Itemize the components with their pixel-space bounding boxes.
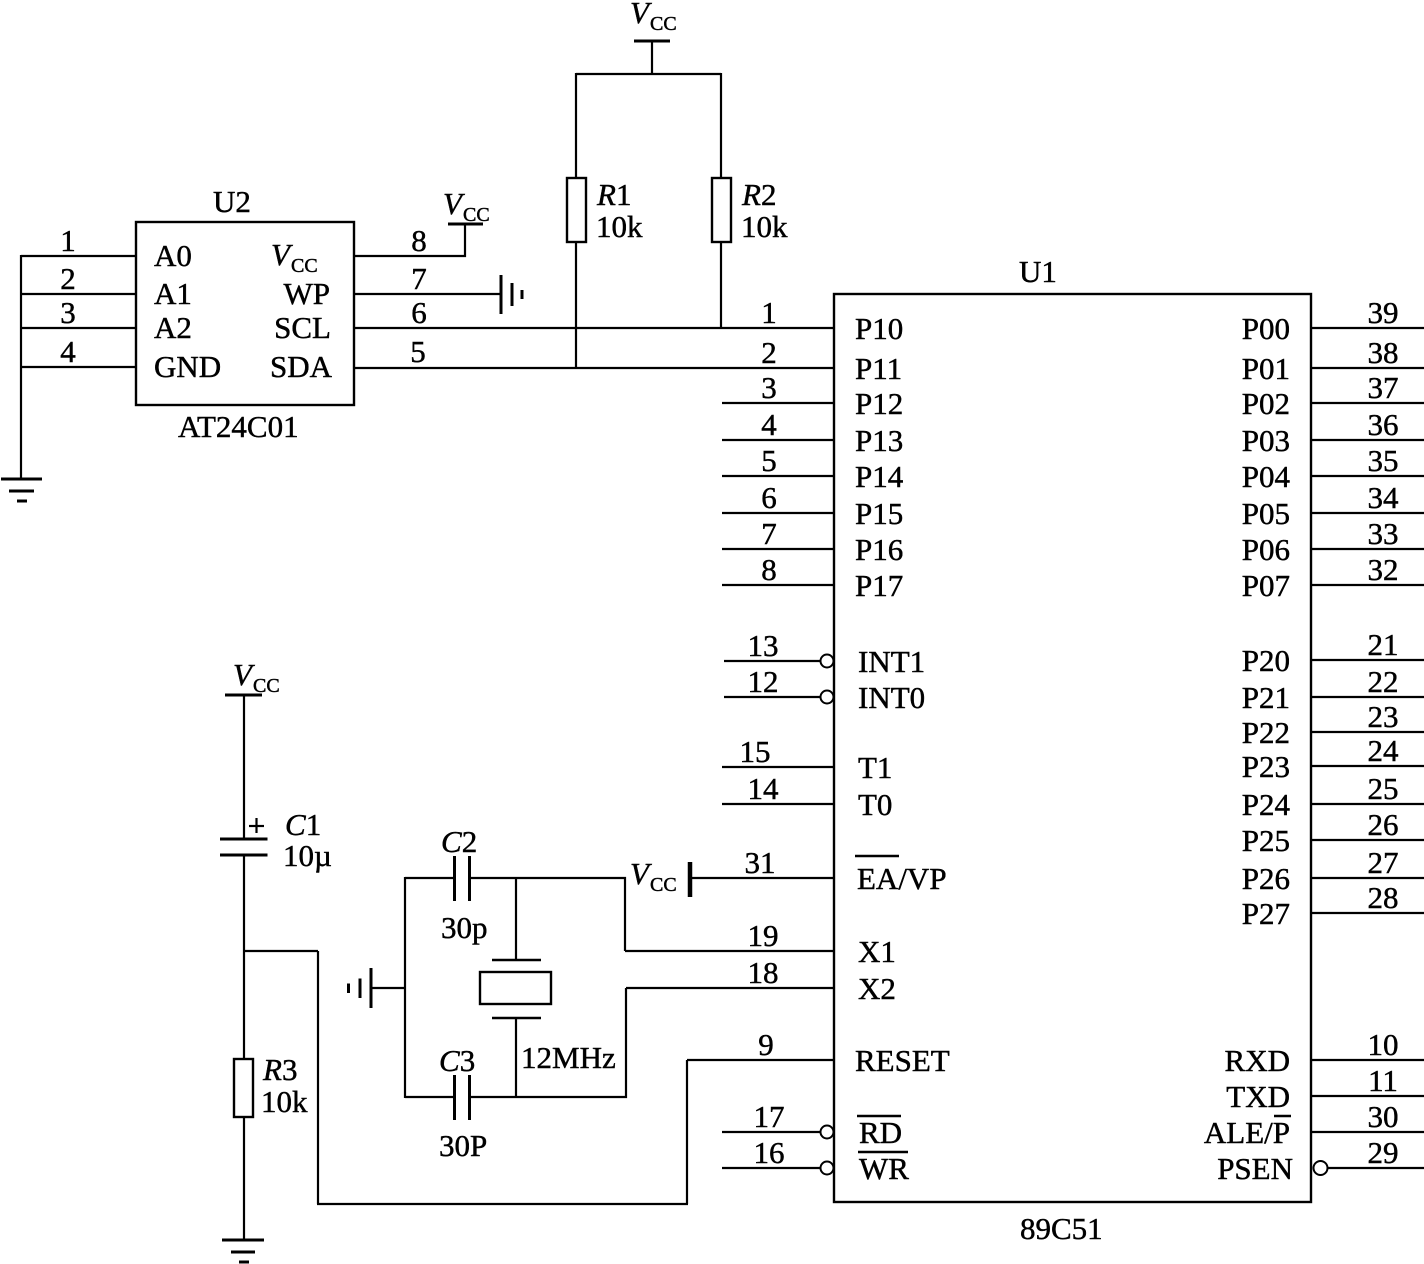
- wire U1 pin36: [1311, 439, 1424, 441]
- wire reset node down: [317, 951, 319, 1204]
- wire C3 to X2 corner: [470, 988, 626, 1097]
- wire U1 pin35: [1311, 475, 1424, 477]
- wire U1 pin37: [1311, 402, 1424, 404]
- wire R1 to SDA line: [575, 242, 577, 368]
- svg-text:P24: P24: [1242, 787, 1291, 822]
- svg-text:WR: WR: [859, 1151, 909, 1186]
- svg-text:11: 11: [1368, 1063, 1398, 1098]
- wire U2 left bus to ground: [20, 255, 22, 479]
- wire R3 to ground: [243, 1117, 245, 1240]
- svg-text:WP: WP: [284, 276, 331, 311]
- svg-text:17: 17: [754, 1099, 785, 1134]
- svg-text:30P: 30P: [439, 1128, 487, 1163]
- wire U1 pin22: [1311, 696, 1424, 698]
- svg-text:P25: P25: [1242, 823, 1290, 858]
- svg-text:CC: CC: [253, 675, 280, 697]
- svg-text:SCL: SCL: [274, 310, 331, 345]
- svg-text:10: 10: [1368, 1027, 1399, 1062]
- svg-text:P15: P15: [855, 496, 903, 531]
- wire U1 pin5: [722, 475, 834, 477]
- wire U1 pin24: [1311, 765, 1424, 767]
- resistor R3: [234, 1059, 253, 1117]
- IC U1 body: [834, 294, 1311, 1202]
- svg-text:U1: U1: [1019, 254, 1057, 289]
- svg-text:INT0: INT0: [858, 680, 925, 715]
- wire C1 to node A: [243, 855, 245, 1059]
- svg-text:EA/VP: EA/VP: [857, 861, 947, 896]
- wire U2 pin1 A0: [21, 255, 136, 257]
- svg-text:V: V: [233, 657, 255, 692]
- wire U1 pin23: [1311, 731, 1424, 733]
- crystal Y1 12MHz: [480, 878, 551, 1097]
- wire U1 pin12 INT0: [724, 696, 821, 698]
- resistor R1: [567, 178, 586, 242]
- svg-text:GND: GND: [154, 349, 221, 384]
- wire U1 pin3: [722, 402, 834, 404]
- wire U1 pin28: [1311, 912, 1424, 914]
- wire U1 pin19 X1: [625, 950, 834, 952]
- svg-text:ALE/P: ALE/P: [1204, 1115, 1290, 1150]
- wire U2 pin2 A1: [21, 293, 136, 295]
- capacitor C1 (polarized): [220, 818, 268, 855]
- svg-text:V: V: [443, 186, 465, 221]
- wire U1 pin25: [1311, 803, 1424, 805]
- wire U1 pin39: [1311, 327, 1424, 329]
- svg-text:19: 19: [748, 918, 779, 953]
- svg-text:32: 32: [1368, 552, 1399, 587]
- svg-text:29: 29: [1368, 1135, 1399, 1170]
- power VCC (U2 pin 8): [448, 223, 483, 226]
- wire C2 to X1 corner: [470, 878, 625, 951]
- svg-text:9: 9: [758, 1027, 774, 1062]
- power VCC (EA/VP pin 31): [688, 862, 693, 897]
- wire SCL net: U2 pin6 to U1 pin1: [354, 327, 834, 329]
- svg-text:10k: 10k: [261, 1084, 308, 1119]
- svg-text:RD: RD: [859, 1115, 902, 1150]
- wire xtal bottom: rail to C3: [405, 1096, 454, 1098]
- wire node A to reset loop: [244, 950, 318, 952]
- svg-text:1: 1: [761, 295, 777, 330]
- svg-text:13: 13: [748, 628, 779, 663]
- svg-text:39: 39: [1368, 295, 1399, 330]
- svg-text:V: V: [630, 0, 652, 30]
- svg-text:36: 36: [1368, 407, 1399, 442]
- svg-text:7: 7: [761, 516, 777, 551]
- svg-text:X1: X1: [858, 934, 896, 969]
- wire U1 pin8: [722, 584, 834, 586]
- svg-text:12: 12: [748, 664, 779, 699]
- svg-text:4: 4: [761, 407, 777, 442]
- IC U2 body: [136, 222, 354, 405]
- svg-text:5: 5: [761, 443, 777, 478]
- svg-text:P21: P21: [1242, 680, 1290, 715]
- svg-text:C2: C2: [441, 824, 477, 859]
- svg-text:33: 33: [1368, 516, 1399, 551]
- svg-text:X2: X2: [858, 971, 896, 1006]
- svg-text:P04: P04: [1242, 459, 1291, 494]
- svg-text:TXD: TXD: [1226, 1079, 1290, 1114]
- svg-text:P22: P22: [1242, 715, 1290, 750]
- wire U1 pin38: [1311, 367, 1424, 369]
- svg-text:RESET: RESET: [855, 1043, 950, 1078]
- svg-text:8: 8: [761, 552, 777, 587]
- svg-text:INT1: INT1: [858, 644, 925, 679]
- svg-text:P26: P26: [1242, 861, 1290, 896]
- svg-text:8: 8: [411, 223, 427, 258]
- svg-text:P12: P12: [855, 386, 903, 421]
- wire rail up to RESET pin: [686, 1060, 688, 1204]
- svg-text:7: 7: [411, 261, 427, 296]
- ground (U2 address pins): [1, 479, 42, 501]
- svg-text:2: 2: [761, 335, 777, 370]
- wire U1 pin9 RESET: [687, 1059, 834, 1061]
- svg-text:P00: P00: [1242, 311, 1290, 346]
- svg-text:16: 16: [754, 1135, 785, 1170]
- svg-text:AT24C01: AT24C01: [178, 409, 299, 444]
- svg-text:21: 21: [1368, 627, 1399, 662]
- svg-text:P16: P16: [855, 532, 903, 567]
- svg-text:CC: CC: [463, 204, 490, 226]
- wire U1 pin6: [722, 512, 834, 514]
- svg-text:18: 18: [748, 955, 779, 990]
- wire U2 pin7 WP termination: [354, 293, 501, 295]
- svg-text:35: 35: [1368, 443, 1399, 478]
- wire VCC to C1: [243, 695, 245, 838]
- wire xtal ground tap: [371, 987, 405, 989]
- wire U1 pin31 EA/VP: [690, 877, 834, 879]
- power VCC (top rail symbol): [634, 41, 670, 74]
- svg-text:P13: P13: [855, 423, 903, 458]
- svg-text:SDA: SDA: [270, 349, 333, 384]
- svg-text:26: 26: [1368, 807, 1399, 842]
- svg-text:C1: C1: [285, 807, 321, 842]
- pin circle INT0: [821, 691, 834, 704]
- wire U1 pin16 WR: [722, 1167, 821, 1169]
- wire U1 pin27: [1311, 877, 1424, 879]
- svg-text:15: 15: [740, 734, 771, 769]
- svg-text:T1: T1: [858, 750, 892, 785]
- svg-text:27: 27: [1368, 845, 1399, 880]
- svg-text:T0: T0: [858, 787, 892, 822]
- svg-text:CC: CC: [650, 13, 677, 35]
- svg-text:14: 14: [748, 771, 780, 806]
- power VCC (reset branch): [225, 694, 262, 697]
- wire SDA net: U2 pin5 to U1 pin2: [354, 367, 834, 369]
- svg-text:10k: 10k: [741, 209, 788, 244]
- svg-text:RXD: RXD: [1225, 1043, 1290, 1078]
- pin circle WR: [821, 1162, 834, 1175]
- svg-text:P11: P11: [855, 351, 902, 386]
- svg-text:U2: U2: [213, 184, 251, 219]
- svg-text:3: 3: [60, 295, 76, 330]
- svg-text:P05: P05: [1242, 496, 1290, 531]
- svg-text:V: V: [271, 237, 293, 272]
- svg-text:P07: P07: [1242, 568, 1290, 603]
- wire U1 pin34: [1311, 512, 1424, 514]
- wire X1 top: rail to C2: [405, 877, 454, 879]
- svg-text:R1: R1: [596, 177, 631, 212]
- svg-text:A2: A2: [154, 310, 192, 345]
- svg-text:P17: P17: [855, 568, 903, 603]
- capacitor C2: [455, 856, 470, 901]
- wire U1 pin13 INT1: [724, 660, 821, 662]
- pin circle PSEN: [1314, 1161, 1328, 1175]
- wire U1 pin21: [1311, 659, 1424, 661]
- svg-text:CC: CC: [291, 255, 318, 277]
- svg-text:10µ: 10µ: [283, 838, 332, 873]
- wire U1 pin30: [1311, 1131, 1424, 1133]
- wire U2 pin3 A2: [21, 327, 136, 329]
- svg-text:P27: P27: [1242, 896, 1290, 931]
- svg-text:R2: R2: [741, 177, 776, 212]
- wire U1 pin29 PSEN: [1327, 1167, 1424, 1169]
- svg-text:37: 37: [1368, 370, 1399, 405]
- svg-text:A1: A1: [154, 276, 192, 311]
- wire R2 to SCL line: [720, 242, 722, 329]
- svg-text:22: 22: [1368, 664, 1399, 699]
- wire U1 pin32: [1311, 584, 1424, 586]
- svg-text:12MHz: 12MHz: [521, 1040, 616, 1075]
- wire U1 pin11: [1311, 1095, 1424, 1097]
- svg-text:P10: P10: [855, 311, 903, 346]
- wire U1 pin33: [1311, 548, 1424, 550]
- wire VCC rail: [576, 73, 721, 75]
- svg-text:P20: P20: [1242, 643, 1290, 678]
- svg-text:24: 24: [1368, 733, 1400, 768]
- wire xtal left rail: [404, 877, 406, 1098]
- wire U1 pin7: [722, 548, 834, 550]
- svg-text:30: 30: [1368, 1099, 1399, 1134]
- svg-text:4: 4: [60, 334, 76, 369]
- wire rail to R2: [720, 73, 722, 178]
- svg-text:P03: P03: [1242, 423, 1290, 458]
- svg-text:P14: P14: [855, 459, 904, 494]
- svg-text:23: 23: [1368, 699, 1399, 734]
- svg-text:89C51: 89C51: [1020, 1211, 1103, 1246]
- wire U1 pin15 T1: [722, 766, 834, 768]
- svg-text:PSEN: PSEN: [1217, 1151, 1293, 1186]
- svg-text:A0: A0: [154, 238, 192, 273]
- svg-text:R3: R3: [262, 1052, 297, 1087]
- capacitor C3: [455, 1075, 470, 1120]
- svg-text:38: 38: [1368, 335, 1399, 370]
- svg-text:V: V: [630, 856, 652, 891]
- ground (xtal, sideways): [349, 968, 372, 1008]
- svg-text:30p: 30p: [441, 910, 488, 945]
- svg-text:6: 6: [761, 480, 777, 515]
- pin circle INT1: [821, 655, 834, 668]
- svg-text:10k: 10k: [596, 209, 643, 244]
- svg-text:CC: CC: [650, 874, 677, 896]
- ground (R3): [222, 1240, 264, 1262]
- svg-text:P23: P23: [1242, 749, 1290, 784]
- svg-text:6: 6: [411, 295, 427, 330]
- wire U1 pin4: [722, 439, 834, 441]
- resistor R2: [712, 178, 731, 242]
- svg-text:28: 28: [1368, 880, 1399, 915]
- svg-text:3: 3: [761, 370, 777, 405]
- svg-text:34: 34: [1368, 480, 1400, 515]
- svg-text:5: 5: [410, 334, 426, 369]
- svg-text:31: 31: [745, 845, 776, 880]
- svg-text:1: 1: [60, 223, 76, 258]
- wire U1 pin17 RD: [722, 1131, 821, 1133]
- svg-text:25: 25: [1368, 771, 1399, 806]
- svg-text:C3: C3: [439, 1043, 475, 1078]
- wire U2 pin4 GND: [21, 366, 136, 368]
- wire U1 pin26: [1311, 839, 1424, 841]
- svg-text:2: 2: [60, 261, 76, 296]
- svg-text:P06: P06: [1242, 532, 1290, 567]
- wire reset bottom rail: [317, 1203, 688, 1205]
- wire U1 pin10: [1311, 1059, 1424, 1061]
- wire U2 pin8 to VCC: [354, 224, 465, 256]
- wire rail to R1: [575, 73, 577, 178]
- svg-text:P01: P01: [1242, 351, 1290, 386]
- pin circle RD: [821, 1126, 834, 1139]
- wire U1 pin14 T0: [722, 803, 834, 805]
- svg-text:P02: P02: [1242, 386, 1290, 421]
- ground (WP, sideways): [501, 275, 522, 314]
- wire U1 pin18 X2: [626, 987, 834, 989]
